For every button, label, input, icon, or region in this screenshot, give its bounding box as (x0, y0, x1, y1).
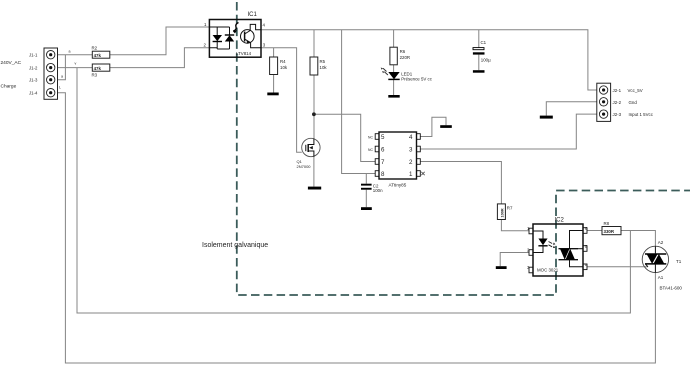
wire rail to C1 (478, 30, 480, 48)
svg-text:10k: 10k (320, 65, 328, 70)
svg-text:a: a (61, 75, 63, 79)
connector J2 (597, 83, 654, 121)
svg-text:1: 1 (409, 171, 413, 178)
svg-text:J1-2: J1-2 (29, 65, 38, 70)
svg-text:100R: 100R (501, 208, 505, 217)
svg-text:47k: 47k (94, 53, 102, 58)
svg-text:2N7000: 2N7000 (297, 164, 312, 169)
junction node Q1 drain / pin7 (312, 112, 316, 116)
svg-text:R4: R4 (280, 59, 286, 64)
svg-text:Vcc_5V: Vcc_5V (628, 88, 643, 93)
wire J1-2 to R3 (58, 67, 93, 69)
svg-text:T1: T1 (676, 259, 682, 264)
wire R7 to IC2 pin1 (501, 220, 529, 231)
wire rail to R5 (313, 30, 315, 57)
resistor R7 (497, 204, 513, 220)
resistor R6 (390, 47, 410, 65)
optocoupler IC2 (527, 218, 588, 277)
svg-text:8: 8 (381, 171, 385, 178)
svg-text:R7: R7 (507, 206, 513, 211)
svg-text:IC1: IC1 (248, 12, 258, 18)
connector J1 (29, 48, 58, 99)
svg-text:100n: 100n (373, 188, 383, 193)
svg-text:L: L (59, 86, 61, 90)
svg-text:J1-1: J1-1 (29, 53, 38, 58)
triac T1 (642, 240, 682, 291)
wire IC1 pin3 to Q1 gate (261, 48, 302, 153)
svg-text:NC: NC (368, 135, 373, 139)
wire LED1 to ground (393, 79, 395, 95)
resistor R3 (92, 64, 110, 77)
svg-text:J1-3: J1-3 (29, 78, 38, 83)
svg-text:330R: 330R (604, 229, 615, 234)
wire J2-2 to ground (546, 102, 597, 116)
svg-text:R6: R6 (400, 49, 406, 54)
wire 5V rail IC1 pin4 to J2-1 (261, 30, 597, 90)
svg-text:R8: R8 (604, 221, 610, 226)
ground C2 (361, 207, 372, 210)
wire IC2 pin4 to triac gate (587, 266, 648, 268)
wire J1-2 drop to bottom rail and up to R8 node (77, 68, 630, 313)
svg-text:2: 2 (409, 159, 413, 166)
svg-text:10k: 10k (280, 65, 288, 70)
svg-text:BTA41-600: BTA41-600 (660, 286, 683, 291)
svg-text:a: a (69, 50, 71, 54)
svg-text:R5: R5 (320, 59, 326, 64)
capacitor C1 (473, 40, 491, 62)
ground ATtiny pin4 (440, 125, 452, 128)
IC1 emission squiggle (233, 23, 238, 32)
svg-text:100µ: 100µ (481, 57, 491, 62)
wire R2 to IC1 pin1 (110, 27, 210, 55)
LED LED1 (381, 68, 433, 82)
wire rail to ATtiny pin8 (342, 30, 376, 174)
optocoupler IC1 (204, 12, 266, 57)
resistor R4 (270, 57, 288, 75)
svg-text:7: 7 (381, 159, 385, 166)
svg-text:47k: 47k (94, 66, 102, 71)
svg-text:C1: C1 (481, 40, 487, 45)
IC1 phototransistor (241, 24, 262, 47)
svg-text:Input 1 5Vcc: Input 1 5Vcc (629, 112, 654, 117)
wire Q1 source to ground (313, 157, 315, 187)
svg-text:Charge: Charge (1, 84, 17, 90)
ground C1 (473, 70, 485, 73)
ground IC2 pin2 (496, 266, 507, 269)
wire IC2 pin2 to ground (500, 253, 529, 267)
capacitor C2 (361, 183, 383, 193)
ground R4 (267, 93, 278, 96)
svg-text:5: 5 (381, 134, 385, 141)
svg-text:v: v (75, 62, 77, 66)
wire J1-1 to R2 (58, 54, 93, 56)
wire J1-3 jumper to J1-1 net (58, 55, 66, 80)
wire R5 to Q1 drain (313, 75, 315, 139)
wire C2 tap (365, 174, 367, 184)
svg-text:3: 3 (409, 147, 413, 154)
svg-text:ATtiny85: ATtiny85 (389, 183, 407, 188)
svg-text:Isolement galvanique: Isolement galvanique (202, 242, 268, 249)
ground LED1 (388, 95, 399, 98)
wire IC2 pin6 to R8 (587, 230, 602, 232)
wire C1 to ground (478, 55, 480, 71)
IC2 input LED (533, 231, 543, 253)
wire J2-3 to ATtiny pin3 (420, 114, 597, 149)
svg-text:J1-4: J1-4 (29, 91, 38, 96)
wire ATtiny pin4 to ground (420, 117, 446, 136)
svg-text:NC: NC (368, 148, 373, 152)
wire R3 to IC1 pin2 (110, 48, 210, 68)
svg-text:R2: R2 (92, 45, 98, 50)
dashed isolation boundary (237, 2, 690, 295)
svg-text:Gnd: Gnd (629, 100, 638, 105)
IC1 input LED pair (213, 35, 222, 41)
ground J2 (540, 116, 553, 119)
svg-text:J2-1: J2-1 (613, 88, 622, 93)
svg-text:4: 4 (409, 134, 413, 141)
wire branch to R4 (273, 48, 275, 57)
resistor R8 (602, 221, 621, 235)
svg-text:J2-2: J2-2 (613, 100, 622, 105)
wire R8 to triac A2 (621, 231, 655, 247)
wire rail to R6 (393, 30, 395, 47)
svg-text:LTV814: LTV814 (236, 51, 252, 56)
svg-text:6: 6 (381, 147, 385, 154)
svg-text:A1: A1 (658, 275, 664, 280)
svg-text:240V_AC: 240V_AC (1, 60, 22, 66)
svg-text:A2: A2 (658, 240, 664, 245)
wire C2 to ground (365, 190, 367, 208)
IC ATtiny85 U1 (368, 132, 425, 188)
svg-text:MOC 3021: MOC 3021 (537, 268, 559, 273)
wire R4 to ground (273, 75, 275, 93)
wire ATtiny pin2 to R7 (420, 162, 501, 204)
wire junction to ATtiny pin7 (314, 114, 375, 161)
resistor R2 (92, 45, 110, 58)
wire R6 to LED1 (393, 65, 395, 72)
IC2 internal triac (559, 249, 579, 260)
svg-text:IC2: IC2 (555, 218, 565, 224)
svg-text:Présence 5V cc: Présence 5V cc (401, 76, 433, 81)
svg-text:220R: 220R (400, 55, 411, 60)
svg-text:R3: R3 (92, 72, 98, 77)
transistor Q1 (297, 138, 321, 169)
ground Q1 (308, 187, 321, 190)
wire J1-4 to bottom rail and triac A1 (58, 93, 656, 363)
svg-text:J2-3: J2-3 (613, 112, 622, 117)
resistor R5 (310, 57, 327, 75)
